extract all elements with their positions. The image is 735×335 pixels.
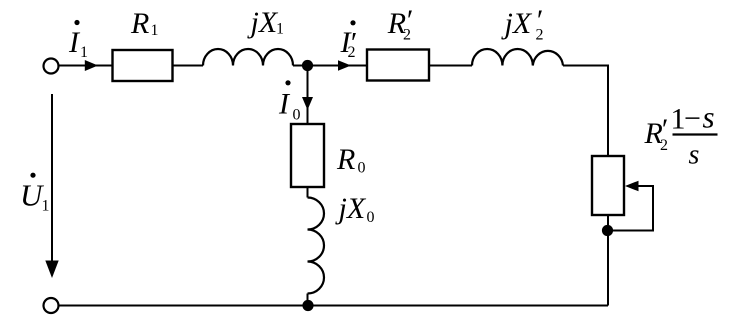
wire: jX0 to node C (307, 294, 309, 306)
svg-text:0: 0 (358, 160, 366, 177)
middle branch wire: node A down to R0 (307, 66, 309, 125)
resistor R1 (113, 50, 173, 81)
node A junction dot (302, 60, 313, 71)
svg-text:R: R (336, 143, 355, 176)
wire: jX1 through node A to R2' (293, 65, 367, 67)
svg-text:2: 2 (403, 26, 411, 43)
svg-text:jX: jX (247, 6, 279, 39)
left voltage indicator line U1 (51, 94, 53, 263)
svg-text:1: 1 (276, 21, 284, 38)
svg-text:2: 2 (348, 44, 356, 61)
node B junction dot (602, 225, 613, 236)
terminal T2 bottom-left (44, 298, 59, 313)
label I2' (340, 20, 357, 61)
bottom wire (59, 305, 608, 307)
current arrow I1 (85, 60, 98, 71)
label U1 (20, 173, 50, 215)
label jX2' (501, 4, 544, 43)
inductor jX2' (472, 49, 563, 66)
inductor jX0 (308, 198, 325, 294)
current arrow I2' (338, 60, 351, 70)
arrow U1 (down) (45, 261, 58, 279)
svg-text:jX: jX (335, 192, 367, 225)
wire: rheostat bottom to node B to bottom wire (607, 215, 609, 306)
label R2' (387, 4, 412, 43)
label I1 (68, 20, 88, 61)
svg-text:R: R (130, 7, 149, 40)
wire: T1 to R1 (59, 65, 113, 67)
label I0 (278, 80, 301, 123)
svg-text:s: s (703, 100, 715, 135)
svg-text:1: 1 (80, 44, 88, 61)
inductor jX1 (203, 49, 293, 66)
label R0 (336, 143, 366, 177)
svg-text:1: 1 (42, 198, 50, 215)
svg-text:s: s (689, 140, 700, 171)
arrow into rheostat (625, 181, 639, 192)
label jX1 (247, 6, 285, 39)
wire: R2' to jX2' (429, 65, 472, 67)
svg-text:−: − (684, 102, 701, 135)
resistor R0 (291, 124, 324, 187)
node C junction dot (302, 300, 313, 311)
wire: feedback loop from arrow to node B (608, 186, 653, 231)
resistor R2' (367, 50, 429, 81)
current arrow I0 (302, 97, 313, 110)
svg-text:2: 2 (660, 137, 668, 154)
terminal T1 top-left (44, 59, 59, 74)
wire: jX2' to right corner, down to rheostat (563, 66, 608, 157)
label jX0 (335, 192, 375, 226)
svg-text:0: 0 (293, 107, 301, 124)
svg-text:2: 2 (536, 26, 544, 43)
svg-text:jX: jX (501, 7, 533, 40)
wire: R0 to jX0 (307, 187, 309, 198)
svg-text:1: 1 (151, 22, 159, 39)
wire: R1 to jX1 (173, 65, 204, 67)
svg-text:0: 0 (367, 209, 375, 226)
label R2'(1-s)/s (644, 100, 718, 171)
label R1 (130, 7, 159, 40)
resistor R2'(1-s)/s (rheostat box) (592, 156, 624, 215)
